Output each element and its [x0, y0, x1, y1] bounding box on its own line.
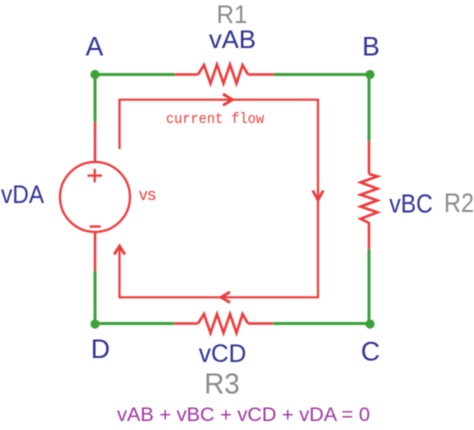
svg-text:R3: R3 — [204, 369, 240, 401]
svg-text:A: A — [86, 32, 104, 62]
svg-text:vAB + vBC + vCD + vDA = 0: vAB + vBC + vCD + vDA = 0 — [117, 405, 370, 426]
svg-text:B: B — [362, 32, 380, 62]
svg-text:vCD: vCD — [199, 340, 247, 368]
svg-text:R2: R2 — [444, 188, 474, 218]
svg-text:C: C — [361, 337, 380, 367]
svg-text:vDA: vDA — [1, 181, 44, 209]
svg-text:vAB: vAB — [209, 26, 256, 54]
svg-text:D: D — [91, 334, 110, 364]
svg-text:vs: vs — [139, 185, 156, 204]
svg-text:current flow: current flow — [166, 112, 264, 128]
svg-text:R1: R1 — [217, 1, 248, 29]
svg-text:vBC: vBC — [389, 189, 433, 219]
